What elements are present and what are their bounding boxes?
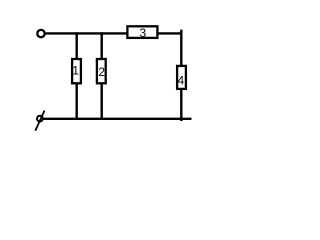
svg-text:4: 4 [178, 74, 185, 88]
wire top bus from input terminal to right corner [44, 32, 181, 34]
svg-text:3: 3 [140, 26, 147, 40]
terminal return (bottom left slashed circle) [35, 111, 44, 131]
wire bottom return bus [44, 118, 192, 120]
svg-text:2: 2 [98, 65, 105, 79]
svg-text:1: 1 [72, 64, 79, 78]
terminal input (top left open circle) [37, 30, 44, 37]
wire vertical branch of element 1 [75, 32, 77, 120]
wire vertical branch of element 2 [100, 32, 102, 120]
resistor 1 [72, 59, 81, 83]
resistor 4 [177, 66, 186, 89]
wire right vertical branch of element 4 [180, 30, 182, 121]
resistor 2 [97, 59, 106, 83]
resistor 3 [127, 26, 157, 40]
